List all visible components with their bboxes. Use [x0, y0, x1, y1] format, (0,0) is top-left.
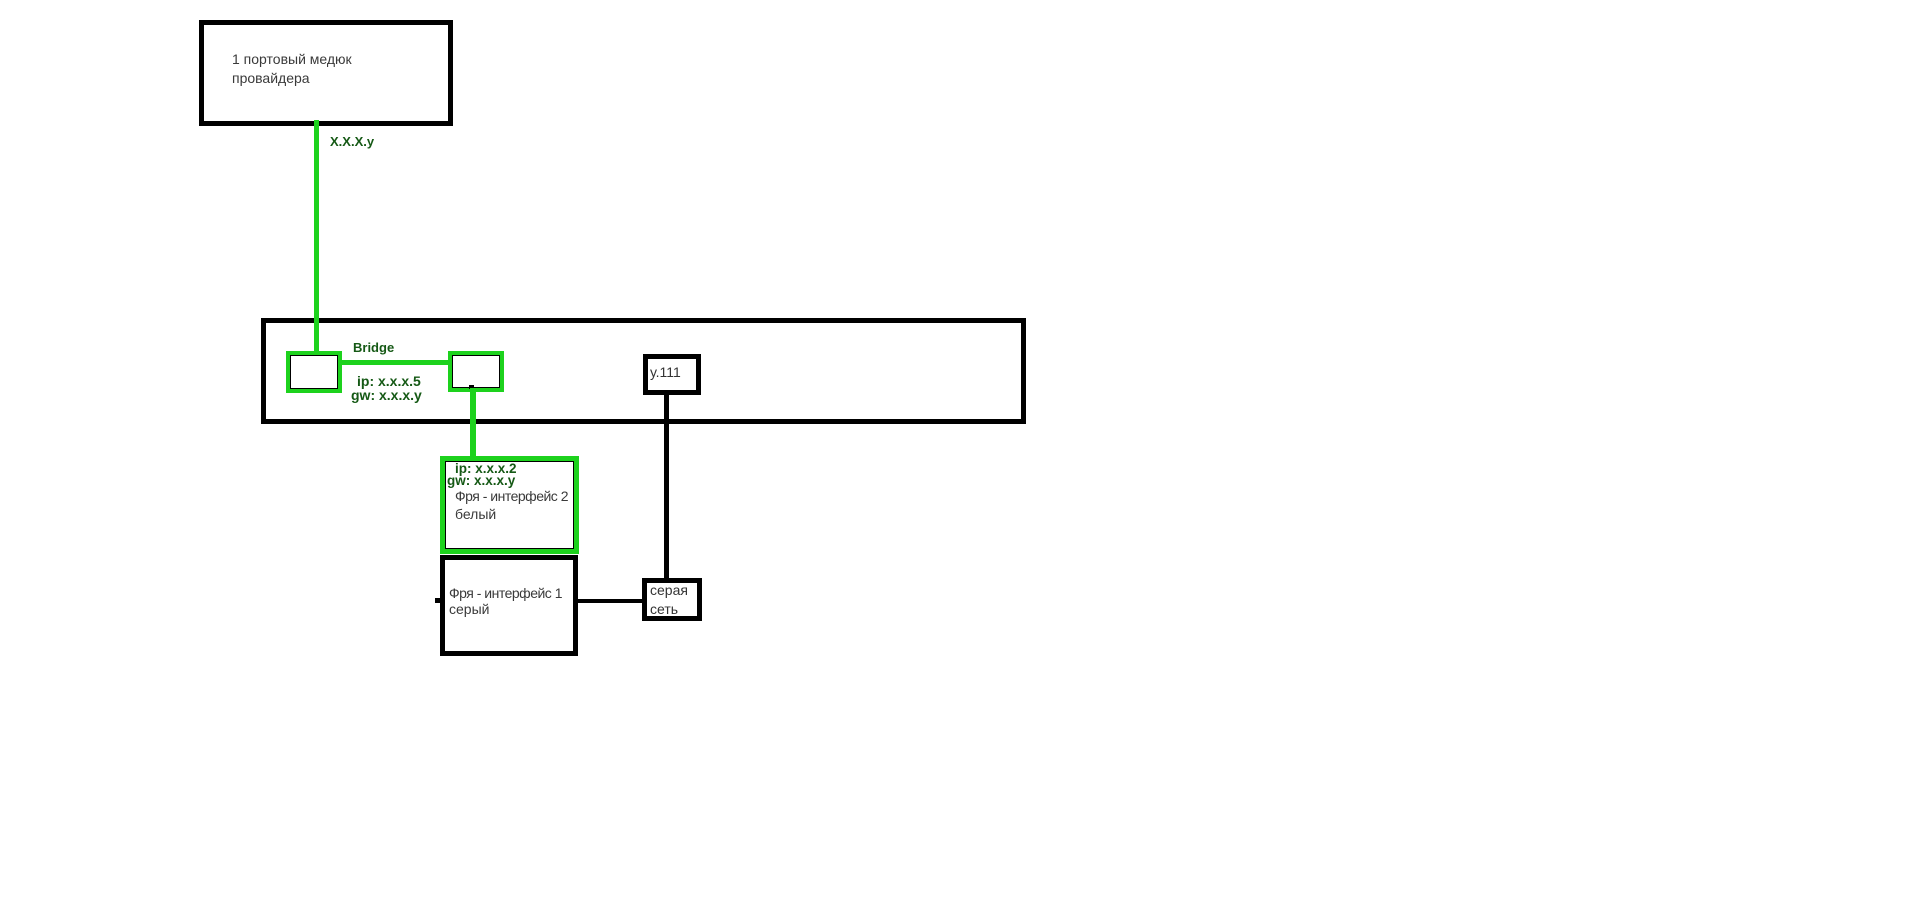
port box y.111: [643, 354, 701, 395]
label gw: x.x.x.y: [351, 387, 422, 403]
router chassis (big rectangle): [261, 318, 1026, 424]
grey network box (серая сеть): [642, 578, 702, 621]
label Bridge: [353, 340, 394, 355]
provider box label: [232, 50, 352, 88]
interface box 1 (grey): [440, 555, 578, 656]
stub on left of interface box 1: [435, 598, 441, 603]
label gw: x.x.x.y: [447, 473, 515, 488]
port box 2 (green, bridge member): [448, 351, 504, 392]
wire: black link interface 1 to grey network: [578, 599, 642, 603]
wire: black link y.111 to grey network: [664, 395, 669, 579]
label Фря - интерфейс 2 белый: [455, 488, 568, 504]
junction dot on port 2: [469, 385, 474, 389]
port box 1 (green, bridge member): [286, 351, 342, 393]
label y.111: [650, 364, 681, 380]
label Фря - интерфейс 1 серый: [449, 585, 562, 601]
provider box (1 портовый медюк провайдера): [199, 20, 453, 126]
interface box 2 (white, green): [440, 456, 579, 554]
wire: green bridge link between port 1 and port 2: [342, 360, 448, 365]
label ip: x.x.x.5: [357, 373, 421, 389]
wire: green link port 2 to white interface: [470, 388, 476, 458]
label серая сеть: [650, 581, 688, 619]
label ip: x.x.x.2: [455, 461, 517, 476]
net label X.X.X.y: [330, 134, 374, 149]
wire: green uplink from provider to bridge port 1: [314, 120, 319, 353]
